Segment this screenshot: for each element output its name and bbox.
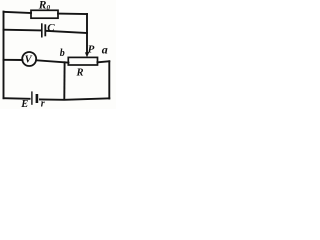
svg-text:R0: R0 (38, 0, 51, 12)
svg-text:b: b (60, 48, 65, 59)
svg-text:P: P (88, 43, 95, 55)
svg-text:C: C (47, 22, 55, 34)
svg-text:r: r (41, 98, 45, 109)
svg-text:E: E (20, 99, 28, 109)
svg-text:V: V (25, 55, 33, 66)
svg-text:R: R (76, 67, 84, 78)
svg-text:a: a (102, 43, 108, 57)
